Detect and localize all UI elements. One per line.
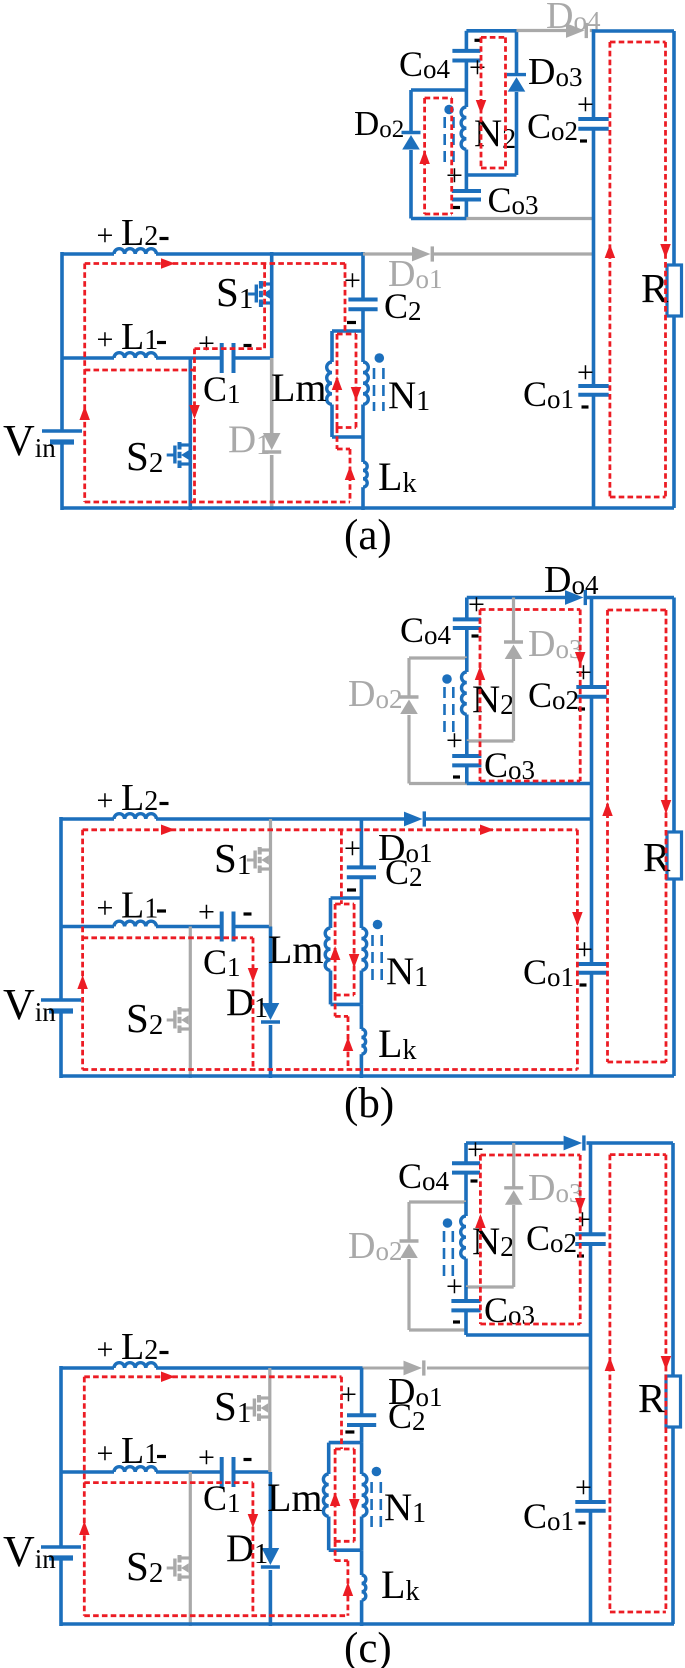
- wire S1 branch: [270, 252, 274, 358]
- wire output loop top/right (b): [592, 596, 675, 600]
- wire top rail (c): [61, 1366, 114, 1370]
- current path: Lk jog: [336, 428, 339, 450]
- svg-text:+: +: [344, 264, 361, 297]
- current path: Do2 loop: [423, 98, 426, 214]
- capacitor C1 (c): [220, 1457, 224, 1487]
- wire output column (c): [589, 1143, 593, 1234]
- current path: N2/Co2 loop (c): [479, 1155, 482, 1324]
- wire output loop top/right (c): [591, 1141, 674, 1145]
- diode Do2 (c, off): [400, 1239, 419, 1242]
- current path: top rail (c): [84, 1375, 341, 1378]
- current path: Lk jog (c): [334, 1541, 337, 1560]
- inductor L2: [114, 249, 156, 254]
- wire second rail (b): [61, 925, 114, 929]
- current path: N2/Do3 loop: [480, 37, 483, 168]
- capacitor Co3 (c): [464, 1287, 468, 1301]
- resistor R: [667, 265, 682, 316]
- wire Co3 to output (off): [466, 217, 593, 220]
- capacitor Co2 (b): [576, 685, 606, 689]
- inductor L1 (c): [114, 1467, 156, 1472]
- wire output column: [592, 29, 596, 119]
- svg-text:Lm: Lm: [267, 1475, 323, 1520]
- capacitor Co1 (c): [575, 1500, 605, 1504]
- diode Do3 (c, off): [512, 1143, 515, 1188]
- current path: input loop left (c): [83, 1377, 86, 1616]
- capacitor Co2 (c): [575, 1232, 605, 1236]
- source Vin (b): [41, 998, 81, 1002]
- current path: feeder to transformer (c): [340, 1377, 343, 1449]
- wire bottom rail (b): [61, 1074, 674, 1078]
- svg-text:+: +: [97, 219, 114, 252]
- svg-text:+: +: [198, 896, 215, 929]
- current path: L1/C1/D1 branch (b): [83, 936, 253, 939]
- wire second rail (c): [61, 1470, 114, 1474]
- diode Do1 (c, off): [363, 1367, 404, 1370]
- current path: N2/Co2 loop (b): [479, 610, 482, 782]
- transistor S1 (c, off): [258, 1396, 270, 1399]
- current path: bottom rail (c): [84, 1614, 348, 1617]
- svg-text:Lm: Lm: [271, 365, 327, 410]
- svg-text:R: R: [638, 1375, 666, 1421]
- wire Co3 to output (c, on): [466, 1333, 591, 1337]
- svg-text:+: +: [446, 724, 463, 757]
- svg-text:+: +: [97, 1333, 114, 1366]
- current path: transformer loop: [337, 333, 356, 336]
- capacitor C2 (b): [347, 865, 376, 869]
- diode D1 (off): [270, 358, 274, 433]
- svg-text:(b): (b): [344, 1080, 394, 1127]
- wire C2 branch (b): [360, 819, 364, 867]
- diode Do4 (off): [517, 29, 567, 32]
- transistor S2 (c, off): [178, 1556, 190, 1559]
- capacitor Co2: [578, 117, 608, 121]
- inductor Lk: [361, 437, 365, 462]
- current path: input loop left: [83, 264, 86, 503]
- diode Do1 (off): [363, 252, 412, 255]
- current path: output loop (c): [609, 1155, 612, 1612]
- core + dot N1 (c): [370, 1482, 373, 1528]
- diode Do2 (b, off): [400, 695, 419, 698]
- wire N2 bottom bar (c, off): [466, 1285, 514, 1288]
- current path: L1 link: [85, 369, 195, 372]
- wire Do2 branch (c, off): [409, 1200, 466, 1203]
- svg-text:+: +: [468, 588, 485, 621]
- wire bottom rail (c): [61, 1622, 674, 1626]
- wire S2 branch (c, off): [189, 1472, 192, 1626]
- capacitor Co1 (b): [576, 962, 606, 966]
- wire C2 branch (c): [360, 1368, 364, 1415]
- inductor L1: [114, 353, 156, 358]
- diode Do2: [402, 131, 421, 134]
- winding N2 (c): [464, 1202, 468, 1216]
- wire N2 bottom bar (b, off): [467, 739, 514, 742]
- svg-text:+: +: [344, 832, 361, 865]
- capacitor C2: [348, 298, 377, 302]
- core + dot N2 (b): [443, 687, 446, 733]
- wire secondary top bar: [466, 29, 516, 33]
- svg-text:+: +: [467, 1133, 484, 1166]
- wire S1 branch (c, off): [268, 1368, 271, 1472]
- wire Do2 branch (b, off): [409, 656, 467, 659]
- diode D1 (b, on): [269, 927, 273, 1004]
- label Co4: [475, 39, 482, 42]
- transistor S1: [260, 282, 272, 285]
- transistor S2: [178, 443, 190, 446]
- svg-text:+: +: [97, 323, 114, 356]
- wire bottom rail: [62, 506, 674, 510]
- transistor S1 (b, off): [258, 848, 270, 851]
- wire top rail: [62, 252, 114, 256]
- diode Do4 (b, on): [565, 590, 584, 605]
- wire secondary top bar (c): [466, 1141, 564, 1145]
- winding N2 (b): [465, 658, 469, 672]
- svg-text:Lm: Lm: [268, 927, 324, 972]
- wire Do2 branch: [411, 88, 466, 92]
- capacitor Co4 (c): [464, 1143, 468, 1163]
- wire left input column: [60, 252, 64, 431]
- svg-text:+: +: [469, 51, 486, 84]
- svg-text:(c): (c): [344, 1625, 392, 1668]
- svg-text:+: +: [446, 159, 463, 192]
- transformer primary Lm/N1: [332, 329, 363, 333]
- diode Do3: [515, 31, 519, 75]
- inductor L2 (b): [114, 814, 156, 819]
- current path: S1/C1 branch: [263, 264, 266, 349]
- resistor R (b): [667, 832, 682, 879]
- core + dot N2 (c): [443, 1231, 446, 1277]
- transformer primary Lm/N1 (c): [329, 1441, 362, 1445]
- wire left input column (b): [59, 817, 63, 1000]
- wire S1 branch (b, off): [269, 819, 272, 927]
- current path: output loop: [609, 42, 612, 497]
- inductor Lk (b): [360, 1004, 364, 1029]
- current path: bottom rail (b): [83, 1068, 578, 1071]
- current path: L1/C1/D1 branch (c): [84, 1481, 253, 1484]
- current path: Lk jog (b): [334, 995, 337, 1016]
- svg-text:+: +: [198, 1441, 215, 1474]
- current path: top rail through Do1 (b): [83, 828, 578, 831]
- capacitor C1: [220, 343, 224, 373]
- capacitor Co1: [578, 384, 608, 388]
- current path: bottom rail: [85, 501, 350, 504]
- current path: down past Co1 (b): [576, 830, 579, 1070]
- capacitor C2 (c): [347, 1413, 376, 1417]
- source Vin: [42, 429, 82, 433]
- inductor L1 (b): [114, 921, 156, 926]
- inductor L2 (c): [114, 1363, 156, 1368]
- wire secondary top bar (b): [467, 596, 565, 600]
- wire S2 branch: [189, 358, 193, 510]
- core + dot N2: [443, 117, 446, 163]
- diode Do3 (b, off): [512, 598, 515, 643]
- transistor S2 (b, off): [178, 1008, 190, 1011]
- svg-text:(a): (a): [344, 512, 392, 559]
- winding N2: [465, 91, 469, 107]
- svg-text:+: +: [97, 892, 114, 925]
- diode Do4 (c, on): [564, 1136, 583, 1151]
- current path: top rail: [85, 262, 345, 265]
- diode Do1 (b, on): [404, 812, 423, 827]
- capacitor Co4: [465, 31, 469, 51]
- wire output column (b): [590, 598, 594, 688]
- wire left input column (c): [59, 1366, 63, 1547]
- current path: feeder to transformer (b): [340, 830, 343, 904]
- current path: feeder to transformer: [344, 264, 347, 335]
- wire S2 branch (b, off): [189, 927, 192, 1079]
- current path: transformer loop (b): [335, 903, 354, 906]
- wire output loop top/right: [594, 29, 675, 33]
- svg-text:+: +: [577, 356, 594, 389]
- source Vin (c): [41, 1545, 81, 1549]
- capacitor C1 (b): [220, 912, 224, 942]
- current path: input loop left (b): [81, 830, 84, 1070]
- transformer primary Lm/N1 (b): [331, 896, 362, 900]
- svg-text:+: +: [446, 1270, 463, 1303]
- wire second rail (L1/C1 row): [62, 356, 114, 360]
- current path: transformer loop (c): [335, 1448, 354, 1451]
- capacitor Co3 (b): [465, 741, 469, 756]
- wire C2 branch: [361, 252, 365, 300]
- capacitor Co4 (b): [465, 598, 469, 620]
- current path: output loop (b): [606, 610, 609, 1062]
- wire Co3 to output (b, on): [467, 782, 592, 786]
- svg-text:+: +: [97, 1437, 114, 1470]
- inductor Lk (c): [360, 1550, 364, 1575]
- wire top rail (b): [61, 817, 114, 821]
- svg-text:+: +: [577, 88, 594, 121]
- svg-text:+: +: [97, 784, 114, 817]
- core + dot N1 (b): [371, 935, 374, 983]
- capacitor Co3: [465, 175, 469, 191]
- resistor R (c): [666, 1376, 681, 1427]
- wire N2 bottom bar: [466, 173, 516, 177]
- diode D1 (c, on): [269, 1472, 273, 1548]
- core + dot N1: [373, 368, 376, 411]
- svg-text:+: +: [198, 327, 215, 360]
- svg-text:+: +: [575, 1471, 592, 1504]
